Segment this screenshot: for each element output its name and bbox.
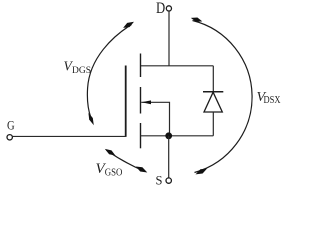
- svg-text:G: G: [7, 119, 15, 133]
- arrowhead V_DGS top: [123, 22, 134, 28]
- svg-text:D: D: [156, 0, 165, 17]
- diode D1 wire top: [212, 66, 214, 92]
- wire drain horizontal: [141, 65, 214, 67]
- arrowhead V_GSO left: [105, 149, 116, 156]
- transistor Q1 channel segment middle: [140, 87, 142, 114]
- transistor Q1 body arrow: [142, 100, 152, 104]
- arrowhead V_DSX top: [191, 18, 203, 22]
- arrowhead V_GSO right: [136, 167, 148, 173]
- svg-text:DSX: DSX: [264, 95, 282, 106]
- wire gate horizontal: [13, 135, 127, 137]
- arc V_DSX (D to S): [193, 21, 253, 173]
- arc V_GSO (G to S): [107, 150, 145, 171]
- arrowhead V_DSX bottom: [196, 169, 208, 175]
- transistor Q1 gate bar: [125, 66, 127, 137]
- wire drain vertical: [168, 11, 170, 66]
- terminal G circle: [7, 135, 12, 140]
- arrowhead V_DGS bottom: [88, 113, 93, 125]
- terminal S circle: [166, 178, 171, 183]
- transistor Q1 channel segment bottom: [140, 123, 142, 148]
- diode D1 wire bottom: [212, 112, 214, 136]
- diode D1 triangle: [204, 92, 222, 112]
- terminal D circle: [166, 6, 171, 11]
- svg-text:GSO: GSO: [105, 167, 123, 179]
- svg-text:DGS: DGS: [72, 66, 91, 76]
- diode D1 cathode bar: [203, 91, 223, 93]
- arc V_DGS (D to G): [87, 25, 131, 118]
- transistor Q1 body contact wire: [141, 102, 169, 136]
- wire source horizontal: [141, 135, 214, 137]
- svg-text:S: S: [156, 174, 163, 188]
- transistor Q1 channel segment top: [140, 54, 142, 78]
- wire source vertical to S: [168, 136, 170, 178]
- node junction dot: [165, 132, 172, 139]
